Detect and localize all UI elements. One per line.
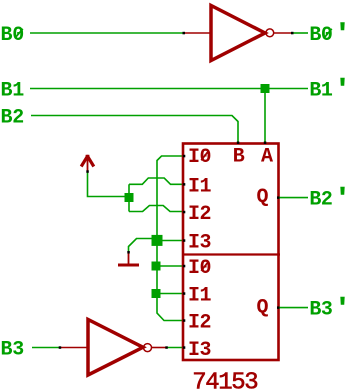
- svg-text:I3: I3: [188, 339, 211, 362]
- svg-text:I0: I0: [188, 257, 211, 280]
- svg-text:': ': [337, 187, 346, 210]
- wire J4 to lower pin I1: [156, 293, 184, 295]
- junction J1: [125, 193, 134, 202]
- svg-text:I1: I1: [188, 285, 212, 308]
- svg-text:Q: Q: [257, 186, 269, 209]
- pin stub Q lower: [277, 307, 308, 309]
- inverter U2: [61, 320, 166, 376]
- wire J2 to ground: [129, 239, 156, 254]
- wire U1 output: [292, 32, 308, 34]
- svg-text:B1: B1: [309, 80, 333, 103]
- svg-text:I3: I3: [188, 232, 211, 255]
- wire J3 to lower pin I0: [156, 265, 184, 267]
- svg-text:': ': [337, 22, 346, 45]
- svg-text:I0: I0: [188, 146, 211, 169]
- svg-text:B: B: [233, 146, 245, 169]
- wire U2 to lower pin I3: [166, 347, 184, 349]
- wire J2 to upper pin I3: [157, 240, 184, 242]
- svg-text:B3: B3: [309, 299, 332, 322]
- svg-text:B0: B0: [309, 24, 332, 47]
- power arrow: [81, 155, 94, 172]
- wire J1 to upper pin I2: [129, 206, 184, 212]
- ground: [118, 252, 139, 265]
- svg-text:B2: B2: [309, 189, 332, 212]
- wire B0: [30, 32, 184, 34]
- svg-text:I1: I1: [188, 175, 212, 198]
- IC U3 74153 body: [183, 144, 279, 361]
- svg-text:B1: B1: [1, 80, 25, 103]
- svg-text:74153: 74153: [192, 370, 257, 392]
- wire B2 to pin B: [31, 116, 238, 144]
- slashed zero marks: [15, 29, 332, 271]
- wire B3: [32, 347, 59, 349]
- junction J4: [152, 289, 161, 298]
- wire J1 to upper pin I1: [129, 178, 184, 184]
- wire bus V: upper I0 down to lower I2: [157, 156, 184, 321]
- junction J3: [152, 262, 161, 271]
- svg-text:A: A: [261, 146, 273, 169]
- svg-text:B0: B0: [1, 24, 25, 47]
- svg-text:B2: B2: [1, 107, 25, 130]
- pin stub Q upper: [277, 197, 308, 199]
- svg-text:': ': [337, 297, 346, 320]
- IC U3 section divider: [182, 253, 280, 255]
- junction J2: [152, 235, 163, 246]
- svg-text:I2: I2: [188, 312, 211, 335]
- wire J1 riser: [128, 184, 130, 211]
- junction on B1 net: [261, 84, 270, 93]
- terminal dots: [59, 32, 294, 349]
- wire junction to pin A: [264, 89, 266, 144]
- svg-text:': ': [337, 78, 346, 101]
- svg-text:B3: B3: [1, 339, 25, 362]
- wire B1: [30, 88, 308, 90]
- svg-text:I2: I2: [188, 203, 211, 226]
- wire arrow to junction J1: [88, 171, 130, 197]
- inverter U1: [183, 6, 292, 61]
- svg-text:Q: Q: [257, 297, 269, 320]
